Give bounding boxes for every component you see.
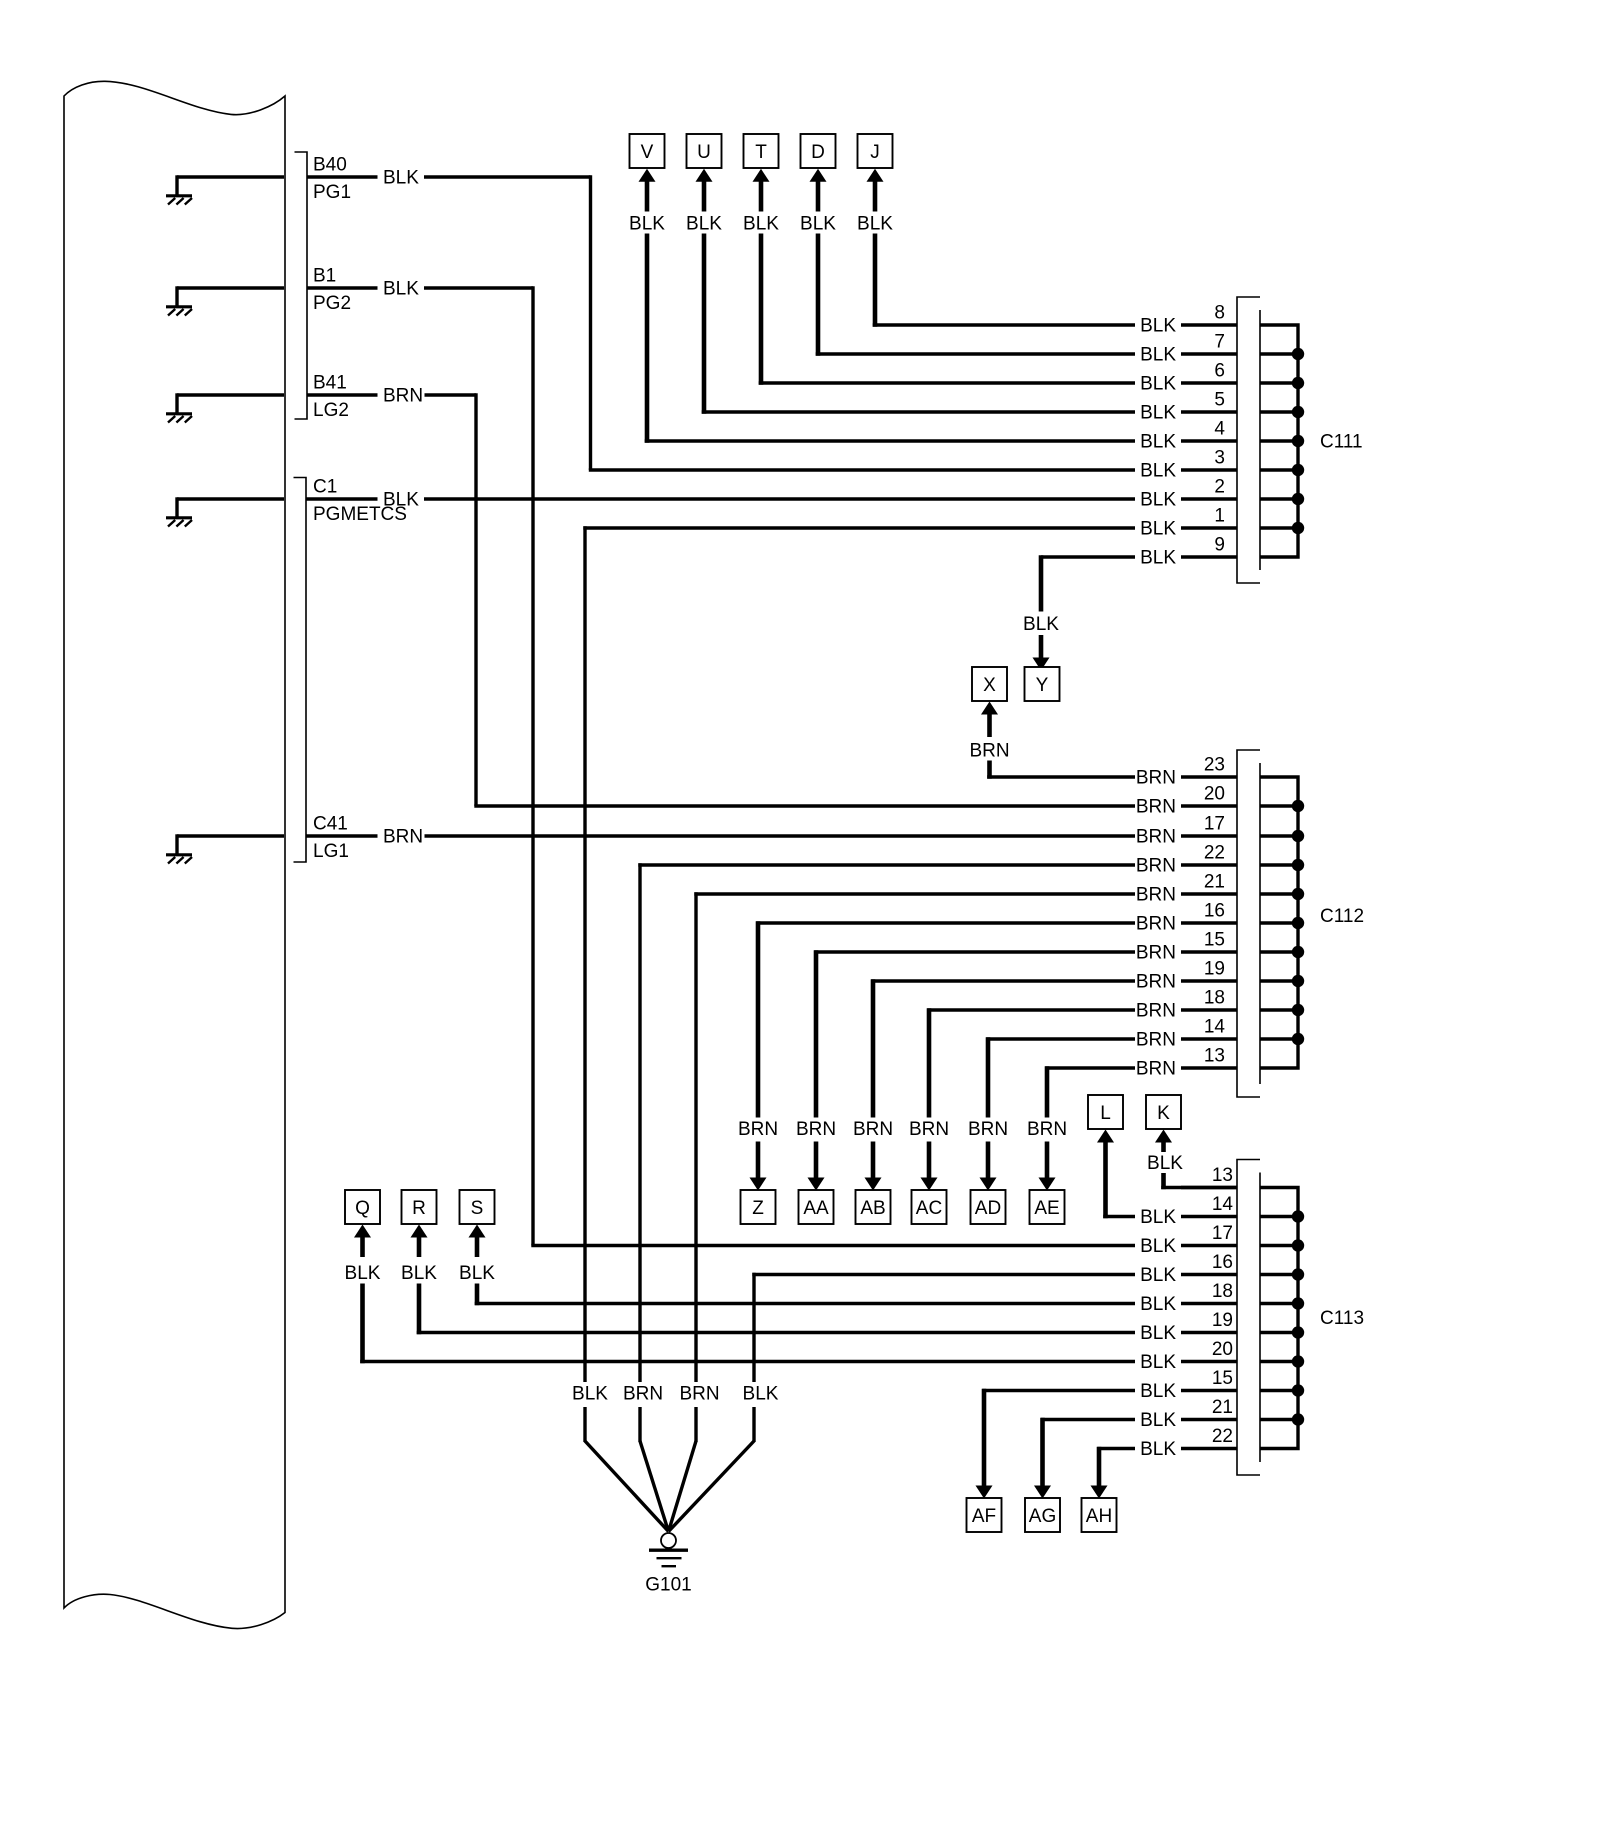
- svg-text:3: 3: [1214, 448, 1225, 469]
- wire from S branch to C113 row: [475, 1302, 1135, 1305]
- junction dot at C111 pin 6: [1292, 377, 1304, 389]
- junction dot at C113 pin 21: [1292, 1413, 1304, 1425]
- svg-text:AF: AF: [972, 1506, 996, 1527]
- arrowhead into terminal J: [867, 169, 884, 182]
- arrow shaft upper segment (V): [645, 182, 650, 212]
- wire B41 BRN (label segment): [307, 393, 378, 396]
- connector C111 pin 7 stub: [1181, 352, 1237, 355]
- ground G101 bar 3: [662, 1565, 677, 1567]
- arrow shaft lower segment (R): [417, 1284, 422, 1335]
- ground G101 terminal circle: [661, 1533, 676, 1548]
- wire C111 pin 1 diagonal to G101: [585, 1441, 669, 1532]
- junction dot at C113 pin 20: [1292, 1355, 1304, 1367]
- svg-text:BLK: BLK: [459, 1263, 495, 1284]
- wire C111 pin 9 horizontal run: [1041, 555, 1135, 558]
- svg-text:23: 23: [1204, 755, 1225, 776]
- svg-text:BRN: BRN: [1136, 885, 1176, 906]
- svg-text:BLK: BLK: [1140, 548, 1176, 569]
- svg-text:L: L: [1100, 1103, 1111, 1124]
- svg-text:BLK: BLK: [686, 214, 722, 235]
- svg-text:B1: B1: [313, 266, 336, 287]
- svg-text:9: 9: [1214, 535, 1225, 556]
- junction dot at C111 pin 7: [1292, 348, 1304, 360]
- connector C112 pin 13 stub: [1181, 1066, 1237, 1069]
- connector C113 pin 18 stub: [1181, 1302, 1237, 1305]
- junction dot at C111 pin 4: [1292, 435, 1304, 447]
- connector C113 common bus: [1260, 1188, 1298, 1449]
- connector C111 pin 9 stub: [1181, 555, 1237, 558]
- module pin label C41/LG1: [313, 814, 349, 863]
- wire B40 BLK (run): [424, 175, 591, 178]
- arrowhead into terminal T: [753, 169, 770, 182]
- arrowhead into terminal Z: [750, 1178, 767, 1191]
- connector C111 pin 1 stub: [1181, 526, 1237, 529]
- arrowhead into terminal AA: [808, 1178, 825, 1191]
- wire C111 pin 1 horizontal run: [583, 526, 1135, 529]
- connector C112 pin 20 inner stub: [1260, 804, 1298, 807]
- connector C112 pin 19 stub: [1181, 979, 1237, 982]
- connector C113 pin 21 stub: [1181, 1418, 1237, 1421]
- wire C112 row to AE branch: [1045, 1066, 1135, 1069]
- svg-text:16: 16: [1212, 1252, 1233, 1273]
- svg-text:BRN: BRN: [738, 1119, 778, 1140]
- module pin label C1/PGMETCS: [313, 477, 407, 526]
- arrowhead into terminal AB: [865, 1178, 882, 1191]
- terminal box R: [402, 1190, 437, 1224]
- junction dot at C112 pin 14: [1292, 1033, 1304, 1045]
- connector C112 common bus: [1260, 777, 1298, 1068]
- svg-text:Q: Q: [355, 1198, 370, 1219]
- svg-text:BLK: BLK: [383, 490, 419, 511]
- wire from J branch to C111 pin row: [873, 323, 1135, 326]
- svg-text:X: X: [983, 675, 996, 696]
- connector C111 pin 3 inner stub: [1260, 468, 1298, 471]
- connector C112 pin 19 inner stub: [1260, 979, 1298, 982]
- connector C111 body: [1237, 297, 1260, 583]
- svg-text:BLK: BLK: [629, 214, 665, 235]
- wire from K branch to C113 pin 13: [1161, 1186, 1237, 1189]
- svg-text:15: 15: [1212, 1368, 1233, 1389]
- svg-text:T: T: [755, 142, 767, 163]
- svg-text:BRN: BRN: [1136, 972, 1176, 993]
- chassis ground symbol at module pin B40: [166, 175, 284, 204]
- connector C111 pin 3 stub: [1181, 468, 1237, 471]
- svg-text:BLK: BLK: [800, 214, 836, 235]
- svg-text:AC: AC: [916, 1198, 942, 1219]
- wire C112 pin 21 diagonal to G101: [669, 1441, 697, 1532]
- svg-text:LG2: LG2: [313, 400, 349, 421]
- chassis ground symbol at module pin C41: [166, 834, 284, 863]
- arrow shaft upper segment (AD): [986, 1037, 991, 1117]
- svg-text:BLK: BLK: [1140, 432, 1176, 453]
- terminal box S: [460, 1190, 495, 1224]
- terminal box V: [630, 134, 665, 168]
- wire C112 row to Z branch: [756, 921, 1135, 924]
- terminal box T: [744, 134, 779, 168]
- svg-text:B41: B41: [313, 373, 347, 394]
- wire C113 pin 16 diagonal to G101: [669, 1441, 755, 1532]
- svg-text:19: 19: [1204, 959, 1225, 980]
- wire C112 pin 22 horizontal run: [638, 863, 1135, 866]
- svg-text:BLK: BLK: [1140, 1236, 1176, 1257]
- svg-text:BLK: BLK: [1140, 490, 1176, 511]
- arrow shaft lower segment (Z): [756, 1142, 761, 1179]
- terminal box AD: [971, 1190, 1006, 1224]
- connector C113 pin 20 stub: [1181, 1360, 1237, 1363]
- connector C113 pin 17 inner stub: [1260, 1244, 1298, 1247]
- connector C113 body: [1237, 1160, 1260, 1476]
- wire C41 BRN (run): [425, 834, 1136, 837]
- svg-text:14: 14: [1204, 1017, 1226, 1038]
- connector C113 pin 20 inner stub: [1260, 1360, 1298, 1363]
- connector C111 pin 5 stub: [1181, 410, 1237, 413]
- connector C113 pin 18 inner stub: [1260, 1302, 1298, 1305]
- svg-text:BLK: BLK: [1140, 1381, 1176, 1402]
- junction dot at C112 pin 15: [1292, 946, 1304, 958]
- arrow shaft from K down (upper): [1161, 1143, 1166, 1153]
- connector C112 pin 21 stub: [1181, 892, 1237, 895]
- svg-text:BRN: BRN: [1136, 943, 1176, 964]
- arrowhead into terminal D: [810, 169, 827, 182]
- arrow shaft (AF): [982, 1389, 987, 1486]
- arrowhead into terminal L: [1097, 1130, 1114, 1143]
- svg-text:BRN: BRN: [909, 1119, 949, 1140]
- svg-text:BRN: BRN: [1136, 914, 1176, 935]
- wire from X branch to C112 pin 23: [987, 775, 1135, 778]
- arrowhead into terminal X: [981, 702, 998, 715]
- svg-text:K: K: [1157, 1103, 1170, 1124]
- connector C112 pin 22 inner stub: [1260, 863, 1298, 866]
- svg-text:17: 17: [1204, 814, 1225, 835]
- connector C113 pin 15 inner stub: [1260, 1389, 1298, 1392]
- module pin label B40/PG1: [313, 155, 351, 204]
- svg-text:6: 6: [1214, 361, 1225, 382]
- junction dot at C113 pin 17: [1292, 1239, 1304, 1251]
- arrow shaft lower segment (AE): [1045, 1142, 1050, 1179]
- wire C111 pin 1 lower segment: [583, 1407, 586, 1442]
- connector C111 pin 2 inner stub: [1260, 497, 1298, 500]
- arrow shaft upper segment (T): [759, 182, 764, 212]
- svg-text:C41: C41: [313, 814, 348, 835]
- arrowhead into terminal U: [696, 169, 713, 182]
- terminal box AE: [1030, 1190, 1065, 1224]
- connector C111 pin 6 stub: [1181, 381, 1237, 384]
- junction dot at C113 pin 14: [1292, 1210, 1304, 1222]
- wire from R branch to C113 row: [417, 1331, 1135, 1334]
- module pin label B41/LG2: [313, 373, 349, 422]
- svg-text:BRN: BRN: [383, 386, 423, 407]
- wire C112 pin 21 vertical drop toward G101: [694, 892, 697, 1382]
- wire C113 pin 16 vertical drop toward G101: [752, 1273, 755, 1382]
- chassis ground symbol at module pin B41: [166, 393, 284, 422]
- wire C112 row to AB branch: [871, 979, 1135, 982]
- wire C113 pin 16 horizontal run: [752, 1273, 1135, 1276]
- terminal box AB: [856, 1190, 891, 1224]
- wire C112 row to AD branch: [986, 1037, 1135, 1040]
- arrow shaft upper segment (Q): [360, 1238, 365, 1258]
- arrow shaft upper segment (AE): [1045, 1066, 1050, 1117]
- wire from V branch to C111 pin row: [645, 439, 1135, 442]
- arrowhead into terminal V: [639, 169, 656, 182]
- connector C111 pin 8 stub: [1181, 323, 1237, 326]
- arrowhead into terminal Y: [1033, 658, 1050, 671]
- connector C113 pin 22 stub: [1181, 1447, 1237, 1450]
- arrow shaft lower segment (D): [816, 234, 821, 356]
- chassis ground symbol at module pin C1: [166, 497, 284, 526]
- arrow shaft lower segment (J): [873, 234, 878, 327]
- svg-text:AG: AG: [1029, 1506, 1056, 1527]
- bracket for pins B40/B1/B41: [295, 152, 308, 419]
- arrow shaft lower segment (AB): [871, 1142, 876, 1179]
- terminal box L: [1088, 1095, 1123, 1129]
- svg-text:LG1: LG1: [313, 841, 349, 862]
- module pin label B1/PG2: [313, 266, 351, 315]
- svg-text:22: 22: [1212, 1426, 1233, 1447]
- svg-text:BLK: BLK: [345, 1263, 381, 1284]
- svg-text:BRN: BRN: [1136, 797, 1176, 818]
- wire C112 row to AA branch: [814, 950, 1135, 953]
- svg-text:BRN: BRN: [1136, 856, 1176, 877]
- wire C113 row to AF branch: [982, 1389, 1135, 1392]
- svg-text:BRN: BRN: [853, 1119, 893, 1140]
- wire C112 pin 21 lower segment: [694, 1407, 697, 1442]
- svg-text:PG1: PG1: [313, 182, 351, 203]
- svg-text:Z: Z: [752, 1198, 764, 1219]
- wire C112 pin 22 lower segment: [638, 1407, 641, 1442]
- connector C111 common bus: [1260, 325, 1298, 557]
- svg-text:22: 22: [1204, 843, 1225, 864]
- svg-text:BRN: BRN: [679, 1384, 719, 1405]
- arrow shaft upper segment (AB): [871, 979, 876, 1117]
- svg-text:S: S: [471, 1198, 484, 1219]
- svg-text:BLK: BLK: [383, 279, 419, 300]
- svg-text:AA: AA: [803, 1198, 829, 1219]
- svg-text:C1: C1: [313, 477, 337, 498]
- connector C113 pin 13 stub: [1181, 1186, 1237, 1189]
- svg-text:BRN: BRN: [383, 827, 423, 848]
- wire B40 horizontal to C111 pin 3: [589, 468, 1135, 471]
- arrow shaft (AG): [1040, 1418, 1045, 1486]
- svg-text:BLK: BLK: [401, 1263, 437, 1284]
- connector C112 pin 18 stub: [1181, 1008, 1237, 1011]
- svg-text:C111: C111: [1320, 432, 1363, 453]
- svg-text:20: 20: [1204, 784, 1225, 805]
- wire C111 pin 1 vertical drop toward G101: [583, 526, 586, 1382]
- engine control module band (partial outline with torn edges): [64, 81, 285, 1628]
- svg-text:BLK: BLK: [1140, 403, 1176, 424]
- arrowhead into terminal AC: [921, 1178, 938, 1191]
- svg-text:BRN: BRN: [796, 1119, 836, 1140]
- svg-text:BRN: BRN: [1136, 827, 1176, 848]
- svg-text:J: J: [870, 142, 880, 163]
- arrow shaft upper segment (S): [475, 1238, 480, 1258]
- connector C112 pin 23 stub: [1181, 775, 1237, 778]
- connector C113 pin 19 inner stub: [1260, 1331, 1298, 1334]
- svg-text:BLK: BLK: [1140, 345, 1176, 366]
- svg-text:13: 13: [1212, 1165, 1233, 1186]
- svg-text:BLK: BLK: [1140, 1323, 1176, 1344]
- terminal box AG: [1025, 1498, 1060, 1532]
- connector C112 pin 17 stub: [1181, 834, 1237, 837]
- svg-text:18: 18: [1204, 988, 1225, 1009]
- arrow shaft upper segment (D): [816, 182, 821, 212]
- junction dot at C112 pin 19: [1292, 975, 1304, 987]
- svg-text:U: U: [697, 142, 711, 163]
- junction dot at C111 pin 3: [1292, 464, 1304, 476]
- svg-text:C112: C112: [1320, 906, 1364, 927]
- connector C111 pin 7 inner stub: [1260, 352, 1298, 355]
- svg-text:D: D: [811, 142, 825, 163]
- terminal box Y: [1025, 667, 1060, 701]
- ground G101 bar 1: [649, 1548, 688, 1551]
- svg-text:BLK: BLK: [572, 1384, 608, 1405]
- arrow shaft lower segment (U): [702, 234, 707, 414]
- svg-text:15: 15: [1204, 930, 1225, 951]
- svg-text:BLK: BLK: [857, 214, 893, 235]
- junction dot at C113 pin 15: [1292, 1384, 1304, 1396]
- connector C112 pin 17 inner stub: [1260, 834, 1298, 837]
- junction dot at C112 pin 17: [1292, 830, 1304, 842]
- svg-text:14: 14: [1212, 1194, 1234, 1215]
- wire C111 pin 9 vertical drop: [1039, 555, 1044, 611]
- svg-text:BRN: BRN: [623, 1384, 663, 1405]
- ground G101 bar 2: [657, 1557, 682, 1559]
- svg-text:4: 4: [1214, 419, 1225, 440]
- svg-text:BLK: BLK: [1140, 1294, 1176, 1315]
- wire C1 BLK (label segment): [306, 497, 378, 500]
- svg-text:17: 17: [1212, 1223, 1233, 1244]
- junction dot at C112 pin 21: [1292, 888, 1304, 900]
- connector C111 pin 2 stub: [1181, 497, 1237, 500]
- svg-text:G101: G101: [645, 1575, 691, 1596]
- connector C112 pin 15 inner stub: [1260, 950, 1298, 953]
- svg-text:BLK: BLK: [1140, 1352, 1176, 1373]
- junction dot at C111 pin 5: [1292, 406, 1304, 418]
- connector C112 pin 20 stub: [1181, 804, 1237, 807]
- wire C41 BRN (label segment): [306, 834, 378, 837]
- wire C113 pin 16 lower segment: [752, 1407, 755, 1442]
- wire C112 row to AC branch: [927, 1008, 1135, 1011]
- terminal box AC: [912, 1190, 947, 1224]
- arrowhead into terminal AG: [1034, 1486, 1051, 1499]
- wire C112 pin 21 horizontal run: [694, 892, 1135, 895]
- bracket for pins C1..C41: [294, 478, 307, 863]
- svg-text:21: 21: [1212, 1397, 1233, 1418]
- arrowhead into terminal Q: [354, 1225, 371, 1238]
- svg-text:PG2: PG2: [313, 293, 351, 314]
- svg-text:5: 5: [1214, 390, 1225, 411]
- wire C1 BLK (run): [424, 497, 1135, 500]
- svg-text:C113: C113: [1320, 1308, 1364, 1329]
- svg-text:BLK: BLK: [1140, 1265, 1176, 1286]
- wire B41 vertical drop to C112 pin 20: [474, 393, 477, 806]
- svg-text:19: 19: [1212, 1310, 1233, 1331]
- wire from D branch to C111 pin row: [816, 352, 1135, 355]
- terminal box AA: [799, 1190, 834, 1224]
- terminal box Q: [345, 1190, 380, 1224]
- svg-text:BRN: BRN: [1136, 1001, 1176, 1022]
- arrow shaft into terminal Y: [1039, 635, 1044, 658]
- arrow shaft lower segment (Q): [360, 1284, 365, 1364]
- arrow shaft upper segment (R): [417, 1238, 422, 1258]
- connector C113 pin 17 stub: [1181, 1244, 1237, 1247]
- connector C113 pin 19 stub: [1181, 1331, 1237, 1334]
- junction dot at C112 pin 20: [1292, 800, 1304, 812]
- wire B1 BLK (label segment): [307, 286, 378, 289]
- connector C113 pin 15 stub: [1181, 1389, 1237, 1392]
- connector C112 pin 21 inner stub: [1260, 892, 1298, 895]
- wire B41 BRN (run): [425, 393, 477, 396]
- svg-text:Y: Y: [1036, 675, 1049, 696]
- terminal box U: [687, 134, 722, 168]
- svg-text:BRN: BRN: [1136, 768, 1176, 789]
- svg-text:BLK: BLK: [1140, 1410, 1176, 1431]
- arrow shaft upper segment (AC): [927, 1008, 932, 1117]
- svg-text:BRN: BRN: [1027, 1119, 1067, 1140]
- svg-text:BLK: BLK: [1140, 374, 1176, 395]
- arrow shaft lower segment (AC): [927, 1142, 932, 1179]
- svg-text:18: 18: [1212, 1281, 1233, 1302]
- terminal box AH: [1082, 1498, 1117, 1532]
- arrow shaft lower segment (AA): [814, 1142, 819, 1179]
- arrow shaft upper segment (U): [702, 182, 707, 212]
- svg-text:B40: B40: [313, 155, 347, 176]
- wire B1 horizontal to C113 pin 17: [531, 1244, 1135, 1247]
- svg-text:1: 1: [1214, 506, 1225, 527]
- connector C112 terminal face line: [1259, 763, 1261, 1084]
- arrowhead into terminal AE: [1039, 1178, 1056, 1191]
- svg-text:BLK: BLK: [743, 214, 779, 235]
- junction dot at C113 pin 18: [1292, 1297, 1304, 1309]
- connector C113 pin 14 stub: [1181, 1215, 1237, 1218]
- svg-text:BLK: BLK: [1140, 1439, 1176, 1460]
- connector C113 pin 21 inner stub: [1260, 1418, 1298, 1421]
- svg-text:BRN: BRN: [1136, 1030, 1176, 1051]
- wire B41 horizontal to C112 pin 20: [474, 804, 1135, 807]
- arrow shaft lower segment (S): [475, 1284, 480, 1306]
- wire B40 BLK (label segment): [307, 175, 378, 178]
- wire C112 pin 22 diagonal to G101: [640, 1441, 669, 1532]
- connector C111 pin 6 inner stub: [1260, 381, 1298, 384]
- junction dot at C112 pin 16: [1292, 917, 1304, 929]
- svg-text:16: 16: [1204, 901, 1225, 922]
- junction dot at C112 pin 18: [1292, 1004, 1304, 1016]
- svg-text:BLK: BLK: [1140, 1207, 1176, 1228]
- wire from L branch to C113 pin 14: [1103, 1215, 1135, 1218]
- connector C112 pin 22 stub: [1181, 863, 1237, 866]
- svg-text:20: 20: [1212, 1339, 1233, 1360]
- svg-text:8: 8: [1214, 303, 1225, 324]
- terminal box D: [801, 134, 836, 168]
- wire from Q branch to C113 row: [360, 1360, 1135, 1363]
- wire C112 pin 22 vertical drop toward G101: [638, 863, 641, 1382]
- svg-text:BLK: BLK: [383, 168, 419, 189]
- connector C112 pin 18 inner stub: [1260, 1008, 1298, 1011]
- junction dot at C111 pin 1: [1292, 522, 1304, 534]
- svg-text:BRN: BRN: [969, 741, 1009, 762]
- connector C113 pin 16 inner stub: [1260, 1273, 1298, 1276]
- connector C112 pin 14 inner stub: [1260, 1037, 1298, 1040]
- svg-text:BLK: BLK: [1140, 519, 1176, 540]
- svg-text:AB: AB: [860, 1198, 885, 1219]
- connector C112 pin 14 stub: [1181, 1037, 1237, 1040]
- wire B1 vertical drop to C113 pin 17: [531, 286, 534, 1245]
- wire from T branch to C111 pin row: [759, 381, 1135, 384]
- connector C111 terminal face line: [1259, 310, 1261, 570]
- arrowhead into terminal K: [1155, 1130, 1172, 1143]
- connector C112 pin 15 stub: [1181, 950, 1237, 953]
- connector C111 pin 4 inner stub: [1260, 439, 1298, 442]
